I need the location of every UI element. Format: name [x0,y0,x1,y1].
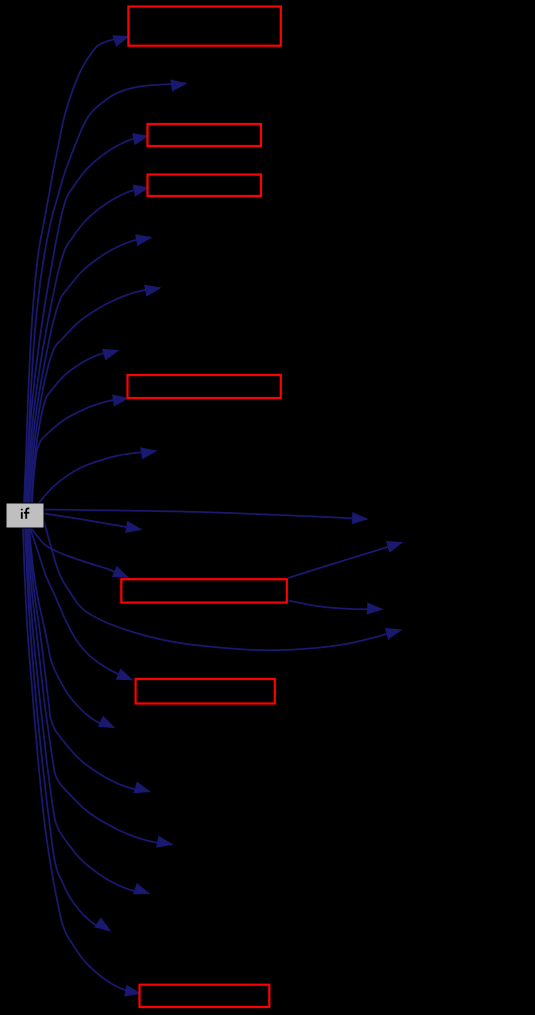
wire edge2: if call edge [25,80,186,504]
wire edge3: if call edge [26,134,148,504]
wire edge21: if call edge [288,542,402,578]
wire edge17: if call edge [27,528,172,847]
wire edge15: if call edge [29,528,114,728]
wire edge22: if call edge [289,601,383,614]
node node4 [128,375,281,398]
wire edge9: if call edge [38,448,156,504]
node node3 [148,175,262,197]
wire edge18: if call edge [26,528,149,894]
wire edge14: if call edge [30,528,132,680]
wire edge11: if call edge [44,514,141,533]
wire edge1: if call edge [24,36,129,504]
node node2 [148,124,262,146]
wire edge4: if call edge [27,185,149,504]
wire edge13: if call edge [44,521,401,650]
node node6 [136,679,275,704]
wire edge7: if call edge [31,349,118,504]
wire edge19: if call edge [25,528,110,931]
node node7 [140,985,270,1007]
wire edge6: if call edge [29,285,160,504]
wire edge5: if call edge [28,235,151,504]
wire edge8: if call edge [32,395,128,504]
node node1 [128,7,280,46]
wire edge10: if call edge [44,510,367,524]
node if [6,503,44,528]
wire edge16: if call edge [28,528,150,793]
node node5 [121,579,286,602]
wire edge12: if call edge [31,528,128,578]
wire edge20: if call edge [23,528,140,996]
